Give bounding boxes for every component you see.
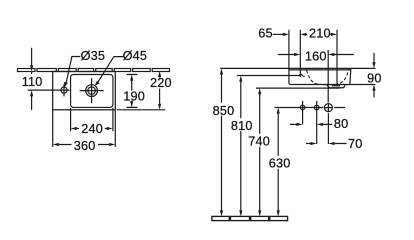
740 level line bbox=[256, 87, 340, 89]
630 level line / holes centerline bbox=[274, 107, 345, 109]
ext line drain bbox=[327, 50, 329, 103]
dim 110 lower bbox=[31, 96, 33, 110]
svg-text:220: 220 bbox=[150, 76, 172, 90]
svg-text:160: 160 bbox=[305, 49, 327, 63]
tap hole circle bbox=[61, 87, 67, 93]
svg-text:850: 850 bbox=[213, 104, 235, 118]
svg-text:210: 210 bbox=[309, 27, 331, 41]
dim 630 bbox=[277, 113, 279, 210]
bowl hidden curve bbox=[307, 69, 349, 85]
dim 80 bbox=[290, 123, 332, 125]
deck line (810 level) bbox=[237, 75, 300, 77]
dim 65 bbox=[273, 33, 283, 35]
floor band segments bbox=[212, 216, 288, 220]
svg-text:240: 240 bbox=[81, 122, 103, 136]
dim 90 bbox=[373, 53, 375, 98]
basin right edge bbox=[350, 68, 351, 84]
tap hook bbox=[299, 74, 304, 76]
fixing hole 2 bbox=[314, 105, 319, 110]
svg-text:65: 65 bbox=[258, 27, 273, 41]
wall band segments bbox=[18, 69, 170, 72]
drain crosshair bbox=[80, 78, 104, 103]
svg-text:Ø35: Ø35 bbox=[81, 49, 106, 63]
svg-text:80: 80 bbox=[334, 117, 349, 131]
rim second line bbox=[289, 69, 351, 71]
drain trap detail bbox=[327, 85, 345, 89]
svg-text:70: 70 bbox=[348, 137, 363, 151]
leader O45 bbox=[96, 57, 123, 85]
rim top line bbox=[220, 67, 375, 69]
basin left edge bbox=[289, 30, 291, 85]
dim 850 bbox=[221, 74, 223, 211]
leader O35 bbox=[66, 57, 81, 86]
svg-text:Ø45: Ø45 bbox=[123, 49, 148, 63]
svg-text:740: 740 bbox=[248, 135, 270, 149]
dim 810 bbox=[240, 81, 242, 210]
svg-text:190: 190 bbox=[123, 89, 145, 103]
drain hole circle bbox=[324, 104, 332, 112]
drain inner circle bbox=[88, 87, 95, 94]
basin outer rect bbox=[53, 72, 116, 110]
svg-text:810: 810 bbox=[231, 119, 253, 133]
dim 70 bbox=[306, 143, 347, 145]
dim 740 bbox=[259, 94, 261, 211]
ext line tap (65/210) bbox=[299, 30, 301, 77]
svg-text:630: 630 bbox=[269, 157, 291, 171]
svg-text:110: 110 bbox=[22, 75, 43, 89]
apron bottom + 90 ext bbox=[291, 84, 376, 86]
dim 360 bbox=[53, 110, 116, 147]
dim 210 bbox=[306, 33, 331, 35]
svg-text:90: 90 bbox=[367, 71, 382, 85]
tap hole crosshair bbox=[28, 84, 70, 96]
dim 190 bbox=[127, 75, 138, 108]
svg-text:360: 360 bbox=[74, 139, 96, 153]
dim 160 bbox=[278, 54, 354, 56]
dim 220 bbox=[159, 76, 161, 103]
dim 110 upper bbox=[31, 48, 33, 66]
dim 240 bbox=[71, 108, 113, 131]
ext line 210 right bbox=[336, 30, 338, 87]
fixing hole 1 bbox=[300, 105, 305, 110]
drain outer circle bbox=[86, 85, 98, 97]
basin inner bowl rect bbox=[71, 75, 113, 108]
